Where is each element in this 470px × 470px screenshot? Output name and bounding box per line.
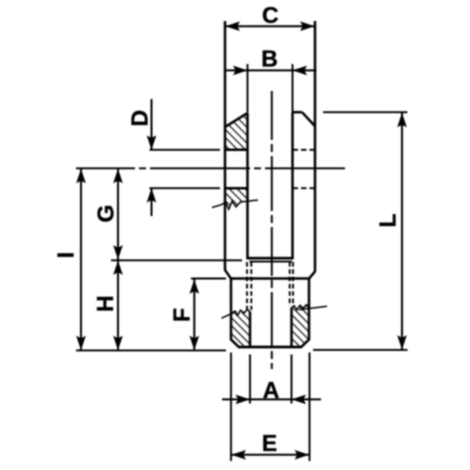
wire: bottom right chamfer: [301, 339, 309, 347]
dimension L top reference: [323, 111, 408, 113]
dimension A line: [222, 398, 321, 400]
dimension E left arrow: [231, 450, 246, 460]
wire: right prong top chamfer: [302, 112, 315, 126]
node: thread hidden inner-right: [289, 262, 291, 306]
dimension E right extension: [309, 353, 311, 462]
dimension G bottom arrow: [113, 245, 123, 260]
wire: right outer edge / C extension line: [314, 21, 317, 272]
svg-text:F: F: [168, 308, 194, 322]
dimension B left extension: [247, 64, 249, 112]
node: pin hole bottom hidden line right prong: [293, 187, 316, 189]
wire: slot bottom: [246, 257, 293, 260]
dimension D lower reference: [150, 187, 221, 189]
node: thread bore top: [250, 261, 293, 263]
dimension C line: [225, 25, 315, 27]
svg-text:E: E: [262, 430, 277, 456]
dimension A right extension: [291, 355, 293, 404]
dimension G top arrow: [113, 169, 123, 184]
svg-text:G: G: [92, 205, 118, 223]
reference line G-H boundary: [111, 259, 242, 261]
dimension F line: [193, 279, 195, 350]
dimension D upper arrow: [147, 135, 157, 150]
node: vertical centerline: [271, 91, 273, 369]
node: bore wall right sectioned: [290, 308, 293, 348]
dimension A left extension: [249, 355, 251, 404]
svg-text:B: B: [261, 45, 278, 71]
node: pin hole bottom edge left prong: [225, 187, 248, 190]
node: thread hidden outer-left: [246, 262, 248, 311]
wire: boss left edge: [230, 279, 233, 341]
node: break line through left prong: [212, 200, 258, 209]
dimension G line: [117, 169, 119, 260]
node: section hatch below pin hole: [225, 189, 247, 209]
node: leader bottom left: [222, 311, 237, 318]
node: pin hole top edge left prong: [225, 149, 248, 152]
node: thread hidden inner-left: [250, 262, 252, 310]
dimension L top arrow: [397, 113, 407, 128]
dimension F bottom arrow: [190, 336, 200, 351]
dimension D lower line: [151, 189, 153, 217]
dimension L bottom reference: [313, 349, 408, 351]
dimension F top arrow: [190, 279, 200, 294]
wire: left outer edge / C extension line: [224, 21, 227, 270]
node: thread hidden outer-right: [292, 262, 294, 307]
dimension D lower arrow: [147, 188, 157, 203]
dimension H line: [117, 260, 119, 350]
dimension E left extension: [230, 353, 232, 462]
dimension C left arrow: [225, 21, 240, 31]
svg-text:L: L: [374, 213, 400, 227]
dimension E right arrow: [295, 450, 310, 460]
node: section hatch upper left prong: [225, 114, 247, 149]
wire: left prong inner edge: [246, 113, 249, 259]
wire: left shoulder chamfer: [225, 270, 231, 279]
svg-text:H: H: [92, 295, 118, 312]
svg-text:A: A: [263, 377, 280, 403]
dimension F reference line: [191, 278, 226, 280]
dimension E line: [231, 454, 310, 456]
node: horizontal centerline of pin hole: [76, 167, 345, 169]
wire: shoulder face: [230, 277, 310, 280]
dimension A left arrow: [236, 395, 251, 405]
wire: bottom edge: [238, 346, 302, 349]
dimension C right arrow: [300, 21, 315, 31]
dimension L bottom arrow: [397, 335, 407, 350]
wire: boss right edge: [308, 279, 311, 341]
dimension H bottom arrow: [113, 336, 123, 351]
dimension B right extension: [292, 64, 294, 112]
node: break line bottom right: [291, 305, 309, 310]
dimension L line: [401, 113, 403, 350]
wire: right prong top flat: [292, 111, 302, 114]
node: pin hole top hidden line right prong: [293, 149, 316, 151]
dimension I line: [80, 169, 82, 350]
svg-text:I: I: [52, 252, 78, 258]
node: section hatch bottom right strip: [291, 306, 309, 346]
dimension I top arrow: [76, 169, 86, 184]
node: leader bottom right: [299, 306, 327, 310]
node: bore wall left sectioned: [249, 312, 252, 348]
node: break line bottom left: [231, 310, 250, 316]
dimension H top arrow: [113, 260, 123, 275]
wire: bottom left chamfer: [231, 339, 239, 347]
wire: right prong inner edge: [291, 112, 294, 258]
dimension B left arrow: [233, 66, 248, 76]
dimension D upper line: [151, 99, 153, 150]
svg-text:D: D: [126, 110, 152, 127]
dimension A right arrow: [292, 395, 307, 405]
dimension D upper reference: [150, 149, 221, 151]
svg-text:C: C: [262, 2, 279, 28]
dimension B line: [225, 69, 317, 71]
dimension I bottom arrow: [76, 336, 86, 351]
dimension B right arrow: [293, 66, 308, 76]
wire: right shoulder chamfer: [309, 271, 315, 278]
reference line bottom left: [76, 349, 226, 351]
wire: left prong top chamfer: [225, 113, 248, 128]
node: section hatch bottom left strip: [232, 311, 250, 346]
